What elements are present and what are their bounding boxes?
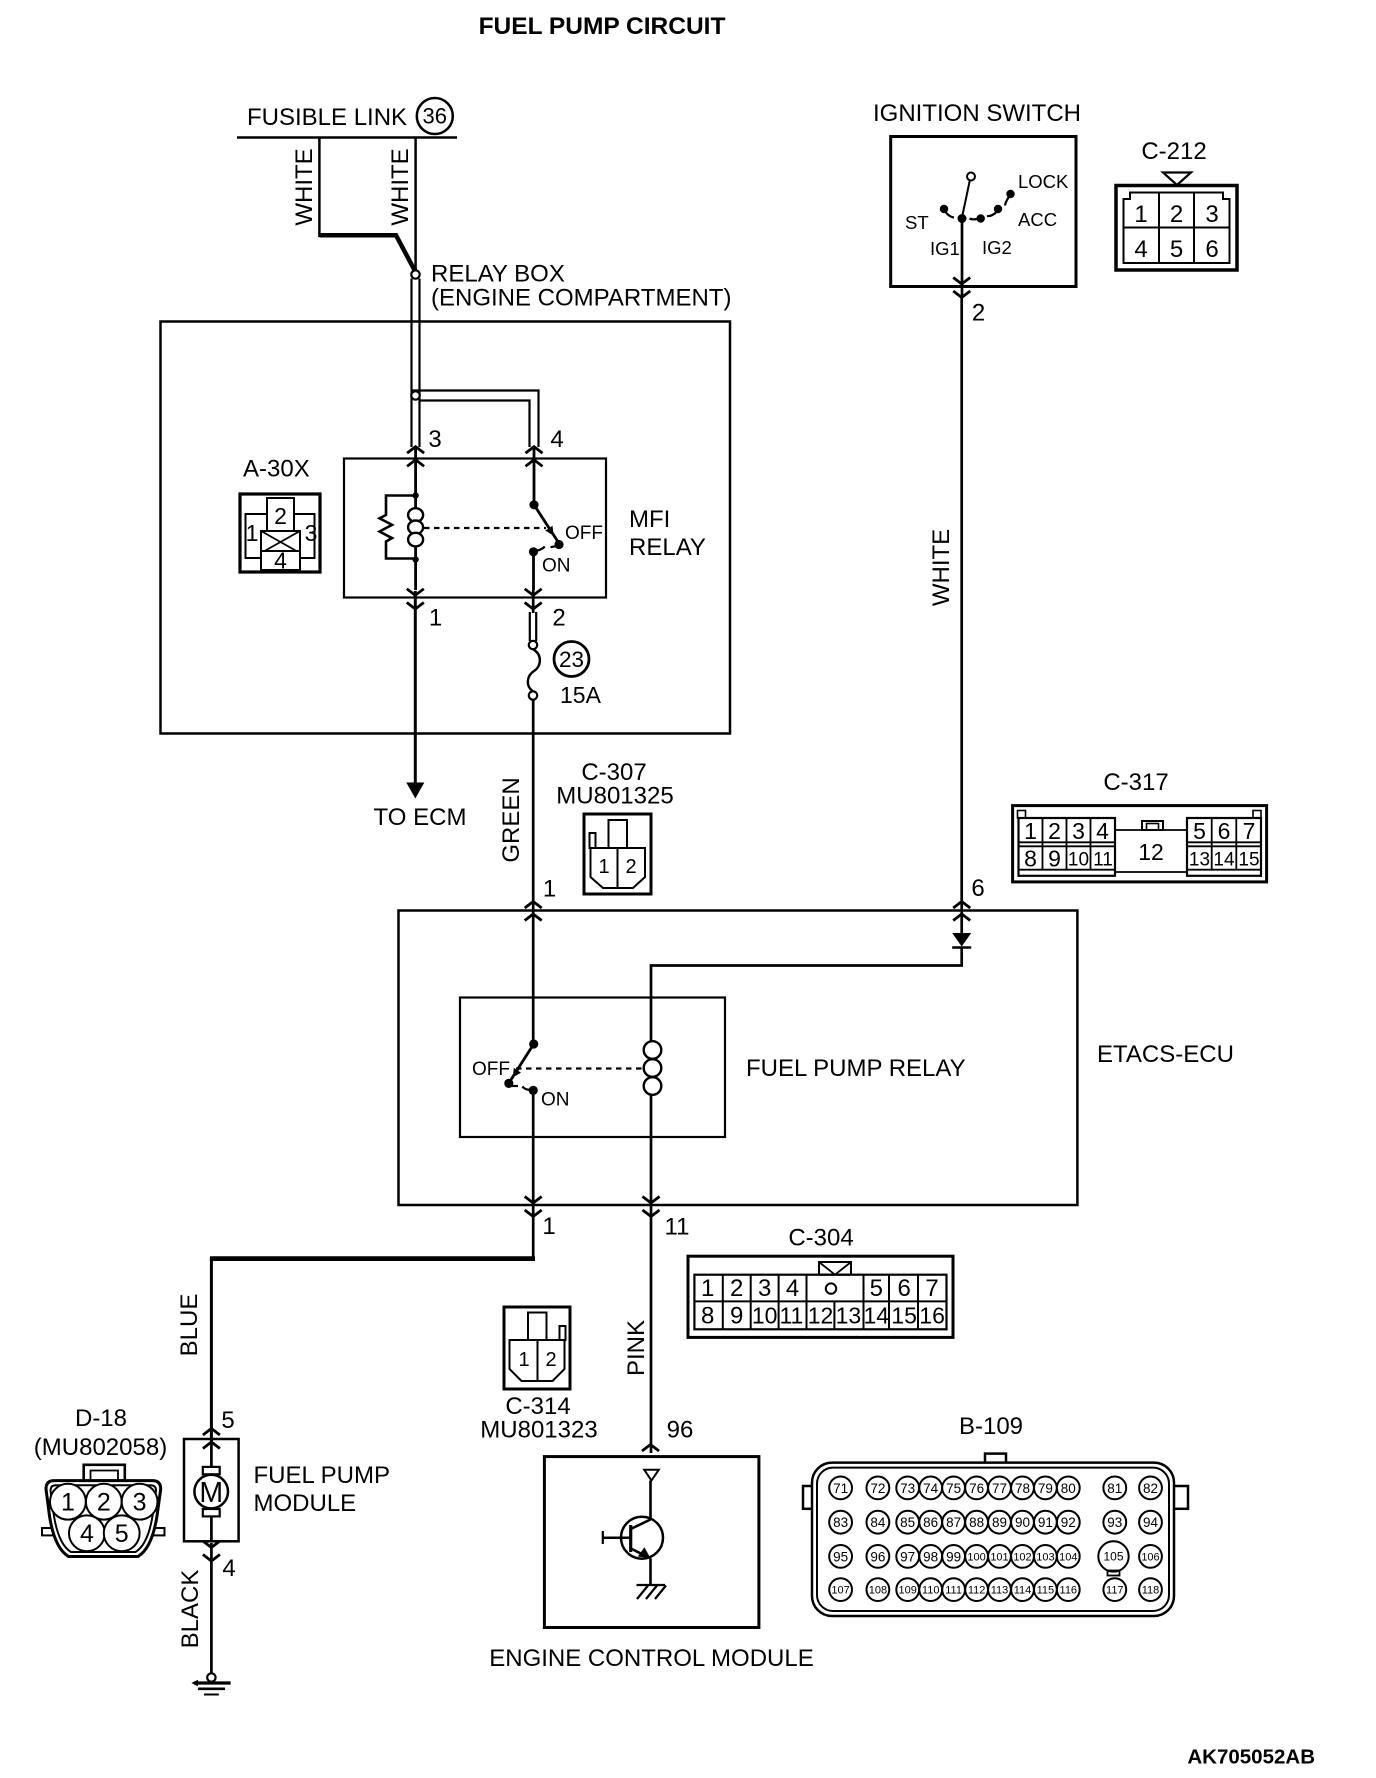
svg-text:6: 6: [971, 875, 984, 902]
connector C-307 icon: [584, 814, 651, 894]
svg-text:110: 110: [922, 1585, 940, 1597]
svg-text:4: 4: [222, 1555, 235, 1582]
svg-text:78: 78: [1015, 1481, 1030, 1496]
svg-text:112: 112: [968, 1585, 986, 1597]
svg-text:ST: ST: [905, 212, 929, 233]
svg-text:2: 2: [1170, 201, 1183, 228]
svg-text:75: 75: [946, 1481, 961, 1496]
svg-text:1: 1: [542, 1213, 555, 1240]
svg-text:8: 8: [1024, 846, 1037, 872]
svg-text:3: 3: [133, 1489, 147, 1517]
connector C-314 icon: [504, 1307, 570, 1389]
svg-text:72: 72: [870, 1481, 885, 1496]
svg-text:1: 1: [518, 1349, 529, 1371]
transistor Q1: [649, 1481, 652, 1520]
svg-text:9: 9: [730, 1303, 743, 1330]
ignition switch box: [891, 137, 1076, 287]
wire WHITE left thick elbow: [319, 235, 415, 271]
diode D1: [952, 933, 971, 947]
connector B-109 body: [803, 1454, 1188, 1616]
svg-text:118: 118: [1142, 1585, 1160, 1597]
svg-text:OFF: OFF: [472, 1059, 510, 1080]
relay box (engine compartment) outline: [161, 322, 731, 734]
svg-text:3: 3: [305, 520, 318, 546]
svg-text:4: 4: [274, 548, 287, 574]
terminal chevrons pin 2: [525, 589, 542, 596]
svg-text:99: 99: [946, 1549, 961, 1564]
svg-text:81: 81: [1107, 1481, 1122, 1496]
svg-text:IGNITION SWITCH: IGNITION SWITCH: [873, 100, 1081, 127]
terminal chevrons ETACS pin6 top: [953, 902, 970, 909]
svg-text:ON: ON: [542, 556, 571, 577]
svg-text:(ENGINE COMPARTMENT): (ENGINE COMPARTMENT): [431, 285, 731, 312]
fuel pump module box: [184, 1439, 239, 1541]
svg-text:11: 11: [665, 1214, 690, 1241]
svg-text:113: 113: [991, 1585, 1009, 1597]
svg-text:C-317: C-317: [1103, 769, 1168, 796]
svg-text:12: 12: [808, 1303, 834, 1329]
svg-text:MODULE: MODULE: [254, 1490, 357, 1517]
svg-text:91: 91: [1038, 1515, 1053, 1530]
terminal chevrons pin 4: [526, 447, 543, 454]
svg-text:102: 102: [1013, 1551, 1031, 1563]
svg-text:82: 82: [1143, 1481, 1158, 1496]
svg-text:ACC: ACC: [1018, 209, 1057, 230]
wire WHITE left: [318, 137, 321, 237]
svg-text:5: 5: [221, 1407, 234, 1434]
svg-text:76: 76: [969, 1481, 984, 1496]
wire ETACS pin1 to switch: [532, 914, 535, 1043]
svg-text:13: 13: [1189, 850, 1210, 871]
engine control module box: [544, 1457, 759, 1628]
terminal chevrons ETACS pin1 bottom: [525, 1197, 542, 1204]
svg-text:FUEL PUMP CIRCUIT: FUEL PUMP CIRCUIT: [479, 13, 726, 40]
svg-text:1: 1: [701, 1275, 714, 1302]
svg-text:7: 7: [1243, 818, 1256, 844]
svg-text:83: 83: [833, 1515, 848, 1530]
wire BLACK: [210, 1543, 213, 1674]
svg-text:ENGINE CONTROL MODULE: ENGINE CONTROL MODULE: [489, 1645, 813, 1672]
dashed actuation line MFI: [424, 527, 546, 529]
svg-text:1: 1: [598, 856, 609, 878]
svg-text:TO ECM: TO ECM: [374, 804, 467, 831]
svg-text:85: 85: [900, 1515, 915, 1530]
motor M1: [210, 1439, 213, 1467]
terminal chevron ECM pin 96: [642, 1445, 659, 1452]
svg-text:OFF: OFF: [565, 523, 603, 544]
terminal chevrons pin 1: [407, 589, 424, 596]
svg-text:96: 96: [870, 1549, 885, 1564]
terminal chevrons fuel pump bottom: [203, 1541, 220, 1548]
svg-text:MFI: MFI: [629, 506, 670, 533]
ETACS-ECU box: [399, 911, 1078, 1206]
svg-text:84: 84: [870, 1515, 886, 1530]
connector C-317 body: [1013, 806, 1267, 882]
svg-text:WHITE: WHITE: [291, 148, 318, 225]
svg-text:15: 15: [1238, 850, 1259, 871]
svg-text:106: 106: [1141, 1551, 1159, 1563]
svg-text:79: 79: [1038, 1481, 1053, 1496]
svg-text:B-109: B-109: [959, 1413, 1023, 1440]
open triangle marker: [644, 1470, 659, 1481]
svg-text:36: 36: [423, 104, 447, 129]
svg-text:WHITE: WHITE: [928, 529, 955, 606]
dashed actuation line fuel pump relay: [516, 1067, 642, 1069]
svg-text:96: 96: [667, 1417, 694, 1444]
terminal chevrons ignition pin 2: [953, 278, 970, 285]
terminal chevrons pin 3: [407, 447, 424, 454]
arrow to ECM: [406, 783, 424, 799]
wire pin3 into relay: [414, 447, 417, 496]
svg-text:74: 74: [923, 1481, 939, 1496]
svg-text:80: 80: [1061, 1481, 1076, 1496]
svg-text:FUSIBLE LINK: FUSIBLE LINK: [247, 104, 407, 131]
svg-text:89: 89: [992, 1515, 1007, 1530]
fuse number circled 23: [554, 642, 589, 677]
junction node J1: [411, 270, 419, 278]
svg-text:4: 4: [786, 1275, 799, 1302]
svg-text:2: 2: [552, 605, 565, 632]
svg-text:10: 10: [752, 1303, 778, 1329]
relay switch S1: [533, 447, 536, 505]
relay switch S2: [529, 1039, 538, 1048]
svg-text:11: 11: [1093, 850, 1113, 871]
svg-text:115: 115: [1037, 1585, 1055, 1597]
svg-text:1: 1: [246, 520, 259, 546]
MFI relay box: [344, 459, 606, 598]
svg-text:8: 8: [701, 1303, 714, 1330]
svg-text:6: 6: [1205, 236, 1218, 263]
resistor R1 (parallel with coil): [380, 496, 416, 559]
fuel pump relay box: [460, 998, 725, 1138]
relay coil L1: [414, 495, 417, 509]
svg-text:3: 3: [1205, 201, 1218, 228]
svg-text:1: 1: [1024, 818, 1037, 844]
svg-text:4: 4: [550, 426, 563, 453]
svg-text:2: 2: [625, 856, 636, 878]
fuse F-23 element: [532, 590, 535, 613]
svg-text:104: 104: [1059, 1551, 1077, 1563]
svg-text:114: 114: [1014, 1585, 1032, 1597]
svg-text:4: 4: [1096, 818, 1109, 844]
svg-text:C-304: C-304: [788, 1225, 853, 1252]
svg-text:3: 3: [428, 426, 441, 453]
svg-text:5: 5: [115, 1520, 129, 1548]
svg-text:6: 6: [898, 1275, 911, 1302]
wire pin1 down to ECM arrow: [414, 591, 417, 785]
svg-text:IG2: IG2: [982, 237, 1012, 258]
svg-text:4: 4: [1134, 236, 1147, 263]
svg-text:3: 3: [1072, 818, 1085, 844]
svg-text:77: 77: [992, 1481, 1007, 1496]
svg-text:95: 95: [833, 1549, 848, 1564]
svg-text:94: 94: [1143, 1515, 1159, 1530]
svg-text:A-30X: A-30X: [243, 456, 310, 483]
wire PINK: [650, 1205, 653, 1453]
svg-text:FUEL PUMP: FUEL PUMP: [254, 1462, 390, 1489]
fusible link 36 circle: [417, 98, 453, 134]
ignition switch contacts: [967, 173, 975, 181]
svg-text:7: 7: [925, 1275, 938, 1302]
connector C-212 triangle: [1163, 173, 1191, 186]
svg-text:RELAY BOX: RELAY BOX: [431, 261, 565, 288]
double wire branch to MFI pin 4: [412, 391, 539, 448]
svg-text:LOCK: LOCK: [1018, 171, 1069, 192]
svg-text:2: 2: [1048, 818, 1061, 844]
svg-text:87: 87: [946, 1515, 961, 1530]
svg-text:1: 1: [429, 605, 442, 632]
svg-text:WHITE: WHITE: [387, 148, 414, 225]
junction node J2: [411, 391, 419, 399]
svg-text:101: 101: [990, 1551, 1008, 1563]
svg-text:BLUE: BLUE: [176, 1294, 203, 1357]
double wire to MFI pin 3: [410, 279, 412, 448]
svg-text:12: 12: [1138, 839, 1164, 865]
svg-text:1: 1: [61, 1489, 75, 1517]
svg-text:97: 97: [900, 1549, 915, 1564]
svg-text:86: 86: [923, 1515, 938, 1530]
svg-text:15: 15: [891, 1303, 917, 1329]
svg-text:90: 90: [1015, 1515, 1030, 1530]
connector A-30X symbol: [240, 494, 320, 574]
svg-text:117: 117: [1106, 1585, 1124, 1597]
svg-text:2: 2: [972, 300, 985, 327]
svg-text:GREEN: GREEN: [498, 777, 525, 862]
svg-text:88: 88: [969, 1515, 984, 1530]
wire diode to coil: [651, 948, 962, 1043]
wire into diode: [960, 898, 963, 934]
svg-text:C-212: C-212: [1141, 138, 1206, 165]
svg-text:107: 107: [831, 1585, 849, 1597]
svg-text:109: 109: [899, 1585, 917, 1597]
svg-text:11: 11: [779, 1303, 803, 1329]
ground G1: [207, 1673, 215, 1681]
svg-text:FUEL PUMP RELAY: FUEL PUMP RELAY: [746, 1055, 966, 1082]
svg-text:ETACS-ECU: ETACS-ECU: [1097, 1041, 1234, 1068]
svg-text:13: 13: [836, 1303, 862, 1329]
svg-text:14: 14: [864, 1303, 890, 1329]
svg-text:BLACK: BLACK: [177, 1570, 204, 1649]
svg-text:103: 103: [1036, 1551, 1054, 1563]
svg-text:100: 100: [967, 1551, 985, 1563]
svg-text:4: 4: [80, 1520, 94, 1548]
svg-text:3: 3: [758, 1275, 771, 1302]
svg-text:98: 98: [923, 1549, 938, 1564]
svg-text:93: 93: [1107, 1515, 1122, 1530]
wire WHITE right: [414, 137, 417, 270]
svg-text:5: 5: [1170, 236, 1183, 263]
svg-text:2: 2: [730, 1275, 743, 1302]
svg-text:10: 10: [1068, 850, 1089, 871]
ignition switch output wire: [961, 222, 964, 298]
connector D-18 body: [42, 1465, 165, 1557]
terminal chevrons fuel pump top: [203, 1429, 220, 1436]
svg-text:9: 9: [1048, 846, 1061, 872]
svg-text:ON: ON: [541, 1090, 570, 1111]
svg-text:PINK: PINK: [623, 1320, 650, 1376]
svg-text:105: 105: [1103, 1550, 1123, 1564]
svg-text:2: 2: [97, 1489, 111, 1517]
svg-text:RELAY: RELAY: [629, 534, 706, 561]
svg-text:111: 111: [945, 1585, 962, 1597]
svg-text:2: 2: [274, 503, 287, 529]
relay coil L2: [644, 1041, 662, 1059]
svg-text:IG1: IG1: [930, 238, 960, 259]
svg-text:15A: 15A: [560, 682, 602, 708]
svg-text:23: 23: [559, 647, 584, 672]
svg-text:92: 92: [1061, 1515, 1076, 1530]
connector C-212 body: [1116, 186, 1237, 271]
svg-text:108: 108: [869, 1585, 887, 1597]
svg-text:5: 5: [870, 1275, 883, 1302]
chassis ground (ECM): [637, 1584, 666, 1586]
svg-text:(MU802058): (MU802058): [34, 1434, 167, 1461]
svg-text:AK705052AB: AK705052AB: [1187, 1746, 1315, 1769]
svg-text:1: 1: [543, 876, 556, 903]
connector C-304 body: [688, 1256, 953, 1337]
svg-text:73: 73: [900, 1481, 915, 1496]
terminal chevrons ETACS pin1 top: [525, 902, 542, 909]
svg-text:MU801323: MU801323: [480, 1417, 597, 1444]
svg-text:5: 5: [1193, 818, 1206, 844]
svg-text:M: M: [199, 1477, 223, 1509]
svg-text:6: 6: [1218, 818, 1231, 844]
wire BLUE elbow: [532, 1205, 535, 1257]
svg-text:D-18: D-18: [75, 1405, 127, 1432]
svg-text:2: 2: [545, 1349, 556, 1371]
fusible link bus bar: [237, 136, 457, 139]
wire GREEN: [532, 700, 535, 915]
terminal chevrons ETACS pin11 bottom: [643, 1197, 660, 1204]
svg-text:71: 71: [833, 1481, 848, 1496]
svg-text:116: 116: [1060, 1585, 1078, 1597]
svg-text:1: 1: [1134, 201, 1147, 228]
svg-text:14: 14: [1213, 850, 1235, 871]
wire WHITE (ignition to ETACS): [960, 298, 963, 899]
svg-text:MU801325: MU801325: [556, 783, 673, 810]
svg-text:16: 16: [919, 1303, 945, 1329]
